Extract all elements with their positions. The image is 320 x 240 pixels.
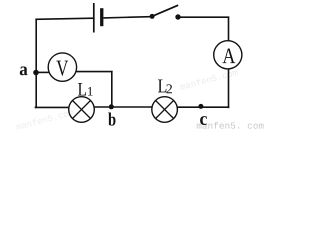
ammeter A xyxy=(214,41,242,69)
watermark manfen5.com bottom-right xyxy=(197,122,264,129)
wire switch to top-right corner xyxy=(180,16,229,18)
wire right vertical lower xyxy=(228,69,230,108)
wire battery to switch xyxy=(103,17,150,18)
wire bottom right segment xyxy=(177,106,229,108)
voltmeter V xyxy=(48,53,76,81)
lamp L1 xyxy=(69,97,95,123)
wire right vertical upper xyxy=(228,17,230,42)
wire node a to voltmeter xyxy=(37,71,49,73)
label a xyxy=(20,66,28,75)
node c xyxy=(198,104,203,109)
wire top-left horizontal xyxy=(35,18,93,19)
wire bottom left segment xyxy=(35,106,69,108)
battery cell xyxy=(94,3,104,33)
wire left vertical xyxy=(35,19,37,109)
label L1 xyxy=(78,83,93,96)
lamp L2 xyxy=(152,97,178,123)
label b xyxy=(108,112,115,125)
wire corner down to node b xyxy=(111,71,113,107)
wire bottom middle segment xyxy=(94,106,152,108)
wire voltmeter to corner xyxy=(76,71,112,73)
switch (open) xyxy=(150,5,181,20)
node b xyxy=(109,104,114,109)
label c xyxy=(200,116,207,125)
label L2 xyxy=(158,80,172,94)
watermark diagonal bottom-left xyxy=(16,108,74,130)
watermark diagonal mid-right xyxy=(180,68,238,90)
node a xyxy=(33,70,39,76)
